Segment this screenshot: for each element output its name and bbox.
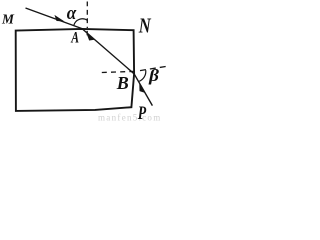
arrowhead on internal ray bbox=[87, 34, 94, 40]
svg-text:β: β bbox=[148, 66, 159, 85]
angle alpha arc bbox=[74, 19, 88, 26]
svg-text:A: A bbox=[70, 30, 79, 47]
dashed normal at B outside block bbox=[140, 66, 168, 70]
dashed normal at B inside block bbox=[102, 71, 134, 72]
angle beta arc bbox=[139, 70, 146, 81]
glass block MN (rectangular slab outline) bbox=[16, 29, 134, 111]
arrowhead on incident ray bbox=[55, 16, 63, 21]
dashed normal at A below surface bbox=[86, 31, 88, 37]
incident ray bbox=[26, 8, 83, 29]
svg-text:M: M bbox=[1, 13, 14, 28]
svg-text:B: B bbox=[116, 73, 129, 93]
svg-text:N: N bbox=[138, 14, 151, 38]
svg-text:manfen5.com: manfen5.com bbox=[98, 112, 162, 122]
dashed normal at A above surface bbox=[86, 2, 88, 29]
arrowhead on exit ray bbox=[140, 85, 145, 93]
svg-text:α: α bbox=[67, 3, 77, 24]
exit ray B to P bbox=[134, 74, 152, 106]
refracted ray inside block A to B bbox=[82, 29, 134, 74]
